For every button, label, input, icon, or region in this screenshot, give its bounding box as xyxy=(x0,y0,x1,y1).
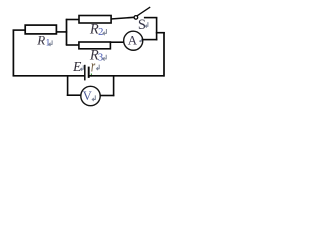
label A return mark xyxy=(140,39,142,42)
svg-text:E: E xyxy=(72,59,82,74)
wire voltmeter right horizontal xyxy=(100,95,115,97)
label V return mark xyxy=(92,95,95,101)
resistor R3 xyxy=(79,42,111,49)
wire bottom right xyxy=(89,75,165,77)
wire voltmeter left horizontal xyxy=(67,94,81,96)
wire jog xyxy=(156,32,165,34)
battery E short plate xyxy=(88,67,90,78)
resistor R1 xyxy=(25,25,56,34)
wire voltmeter left drop xyxy=(67,75,69,96)
wire R2 to switch xyxy=(111,17,135,19)
wire right vertical xyxy=(163,32,165,77)
svg-text:r: r xyxy=(91,57,96,76)
wire R3 to ammeter xyxy=(110,41,124,43)
switch S pivot xyxy=(134,16,138,20)
resistor R2 xyxy=(79,16,111,24)
label R1 return mark xyxy=(49,40,52,46)
label r return mark xyxy=(97,65,100,71)
svg-text:1: 1 xyxy=(46,37,51,47)
label E return mark xyxy=(81,65,84,71)
wire switch right xyxy=(144,17,158,19)
ammeter A xyxy=(124,31,143,50)
wire voltmeter right drop xyxy=(113,75,115,96)
svg-text:R: R xyxy=(36,33,45,48)
svg-text:2: 2 xyxy=(98,27,103,38)
svg-text:S: S xyxy=(138,17,146,33)
wire vertical A ammeter join xyxy=(156,18,158,41)
label R2 return mark xyxy=(103,29,107,35)
node junction vertical xyxy=(66,19,68,45)
wire R1 right xyxy=(56,31,67,33)
wire bottom left xyxy=(13,75,85,77)
wire left vertical xyxy=(12,30,14,77)
label S return mark xyxy=(145,22,148,28)
wire lower branch left xyxy=(66,44,79,46)
wire ammeter right xyxy=(142,39,157,41)
label R3 return mark xyxy=(103,55,107,61)
svg-text:A: A xyxy=(128,34,138,48)
wire R1 left xyxy=(13,29,26,31)
wire top branch left xyxy=(66,19,80,21)
battery E long plate xyxy=(84,65,86,81)
green spellcheck mark xyxy=(90,74,92,77)
voltmeter V xyxy=(81,86,100,105)
switch S blade xyxy=(137,7,150,16)
svg-text:V: V xyxy=(83,89,92,103)
svg-text:3: 3 xyxy=(98,52,103,63)
